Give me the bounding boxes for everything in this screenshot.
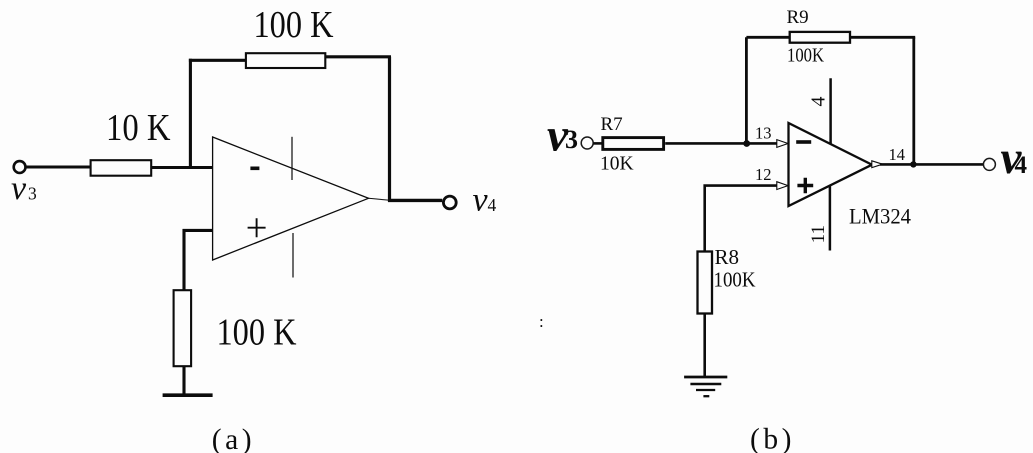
arrowhead pin 13 [777,140,788,148]
op-amp inverting sign (b) [796,140,811,144]
thin output stub from apex (a) [369,198,391,200]
wire non-inverting input (a) [184,230,213,291]
ground bar 1 (b) [684,376,727,379]
svg-text:14: 14 [889,145,906,164]
svg-text:4: 4 [807,97,829,107]
wire feedback top (b) [746,36,790,39]
power pin 4 line (b) [829,78,832,144]
wire R8 to ground (b) [703,313,706,377]
svg-text:4: 4 [1015,152,1028,179]
svg-text:10 K: 10 K [106,107,171,149]
input terminal circle (a) [14,161,26,173]
junction dot node 14 [910,161,916,167]
wire output to terminal (b) [880,163,983,166]
svg-text:R8: R8 [715,245,740,269]
svg-text:100 K: 100 K [217,312,297,354]
output terminal circle (b) [983,158,995,170]
svg-text:R9: R9 [787,7,809,28]
wire feedback right vertical (b) [912,37,915,164]
op-amp inverting sign (a) [250,167,259,171]
wire feedback right vertical (a) [388,57,391,202]
op-amp LM324 triangle (b) [789,123,873,206]
wire output (a) [388,199,442,202]
svg-text:3: 3 [28,184,37,204]
svg-text:(a): (a) [212,424,255,453]
resistor R9 [790,32,850,43]
arrowhead output pin 14 [872,161,883,168]
power pin 11 line (b) [829,186,832,251]
output terminal circle (a) [443,196,456,209]
wire feedback top right (a) [325,55,391,58]
ground bar 2 (b) [690,383,721,386]
power pin mark top (a) [291,137,293,180]
ground bar 4 (b) [703,395,709,397]
svg-text:11: 11 [808,225,829,243]
resistor R7 [603,138,664,150]
resistor 100 K to ground (a) [174,290,192,366]
wire R to op-amp inverting input (a) [152,166,214,169]
wire input to R7 (b) [593,142,603,145]
wire feedback top left (a) [189,59,246,62]
junction dot node 13 [743,140,750,147]
wire non-inverting pin 12 (b) [705,186,779,252]
power pin mark bottom (a) [292,233,294,278]
input terminal circle (b) [581,137,593,149]
arrowhead pin 12 [777,182,788,190]
wire input to R (a) [26,166,90,169]
resistor 100 K feedback (a) [246,53,325,68]
ground bar 3 (b) [696,389,715,391]
svg-text:100 K: 100 K [254,4,334,46]
op-amp non-inverting sign (a) [248,218,266,237]
svg-text:13: 13 [755,124,772,143]
svg-text:LM324: LM324 [849,204,911,229]
wire feedback left vertical (b) [745,37,748,143]
svg-text:v: v [473,182,489,219]
op-amp non-inverting sign (b) [797,178,813,194]
op-amp U1 triangle (a) [213,137,369,260]
svg-text:3: 3 [565,125,578,154]
resistor R8 [698,252,713,314]
wire resistor to ground (a) [182,366,185,396]
svg-text:100K: 100K [787,46,824,67]
wire feedback left vertical (a) [189,59,192,169]
svg-text:(b): (b) [750,424,795,453]
svg-text:100K: 100K [714,267,756,291]
wire feedback top right segment (b) [850,36,915,39]
svg-text:R7: R7 [601,114,623,135]
ground bar (a) [163,393,213,397]
svg-text::: : [539,312,544,331]
wire R7 to node 13 (b) [665,142,778,145]
svg-text:12: 12 [755,165,772,184]
svg-text:4: 4 [488,195,497,215]
resistor 10 K (a) [91,160,152,176]
svg-text:10K: 10K [600,154,634,175]
svg-text:v: v [11,170,27,207]
